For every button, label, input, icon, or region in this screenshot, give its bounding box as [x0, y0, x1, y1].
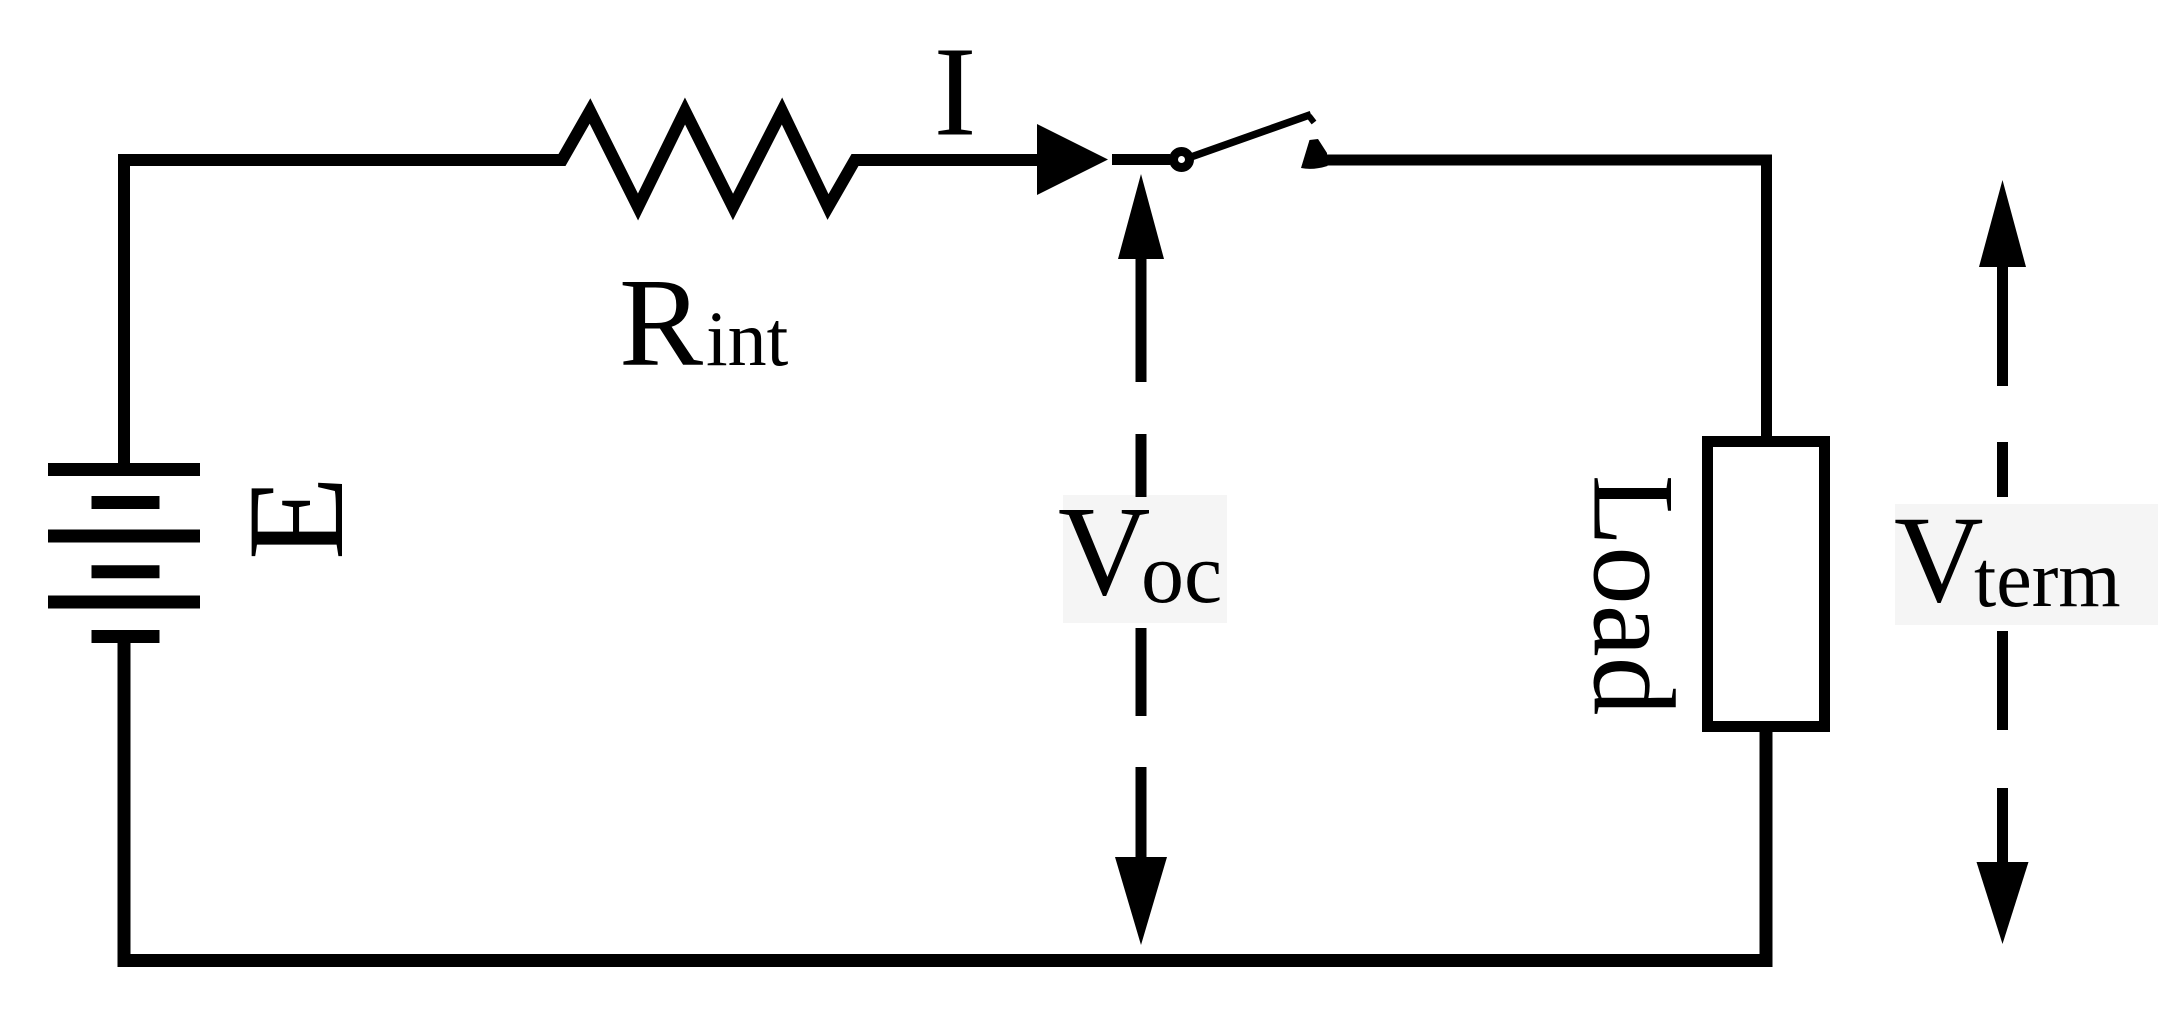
load resistor box [1708, 442, 1825, 727]
Vterm arrow: up arrowhead [1979, 180, 2026, 267]
battery E plate 1 (long, positive) [48, 463, 200, 476]
battery E plate 4 (short) [92, 565, 160, 578]
wire: arrowhead tip to switch pivot [1112, 154, 1170, 165]
battery E plate 3 (long) [48, 530, 200, 543]
battery E plate 6 (short, negative) [92, 630, 160, 643]
switch S1 blade end tick [1309, 116, 1314, 123]
Vterm arrow: down arrowhead [1977, 862, 2029, 944]
switch S1 pivot circle [1174, 152, 1190, 168]
Voc arrow: upper solid shaft [1136, 259, 1147, 382]
Vterm arrow: lower solid shaft [1997, 788, 2008, 862]
wire: load bottom, bottom return wire, and up to battery negative [124, 640, 1766, 961]
Vterm arrow: dash above label [1997, 442, 2008, 497]
wire: right vertical down to load top [1761, 160, 1772, 438]
Voc arrow: down arrowhead [1115, 857, 1167, 945]
switch S1 right contact [1301, 139, 1328, 169]
wire: resistor to current arrowhead [855, 154, 1041, 166]
svg-text:int: int [706, 295, 789, 382]
Voc arrow: up arrowhead [1118, 174, 1164, 259]
battery E plate 5 (long) [48, 596, 200, 609]
Voc label background box [1063, 495, 1227, 623]
Vterm label background box [1895, 504, 2158, 625]
svg-text:V: V [1058, 480, 1150, 622]
svg-text:term: term [1974, 536, 2121, 624]
svg-text:Load: Load [1569, 475, 1698, 715]
battery E plate 2 (short) [92, 496, 160, 509]
current direction arrowhead (I) [1037, 124, 1108, 195]
svg-text:oc: oc [1141, 525, 1222, 621]
svg-text:E: E [219, 476, 372, 560]
switch S1 blade (open) [1191, 115, 1311, 158]
Vterm arrow: dash below label [1997, 631, 2008, 730]
Vterm arrow: upper solid shaft [1997, 267, 2008, 386]
svg-text:V: V [1894, 491, 1984, 628]
svg-text:I: I [934, 21, 977, 163]
svg-text:R: R [619, 254, 703, 393]
Voc arrow: lower solid shaft [1136, 767, 1147, 857]
Voc arrow: dash above label [1136, 434, 1147, 497]
wire: switch contact to top-right corner [1322, 155, 1772, 166]
wire: battery positive up left side and top-left corner to resistor [124, 160, 562, 470]
Voc arrow: dash below label [1136, 628, 1147, 716]
resistor Rint (zigzag) [556, 111, 861, 207]
